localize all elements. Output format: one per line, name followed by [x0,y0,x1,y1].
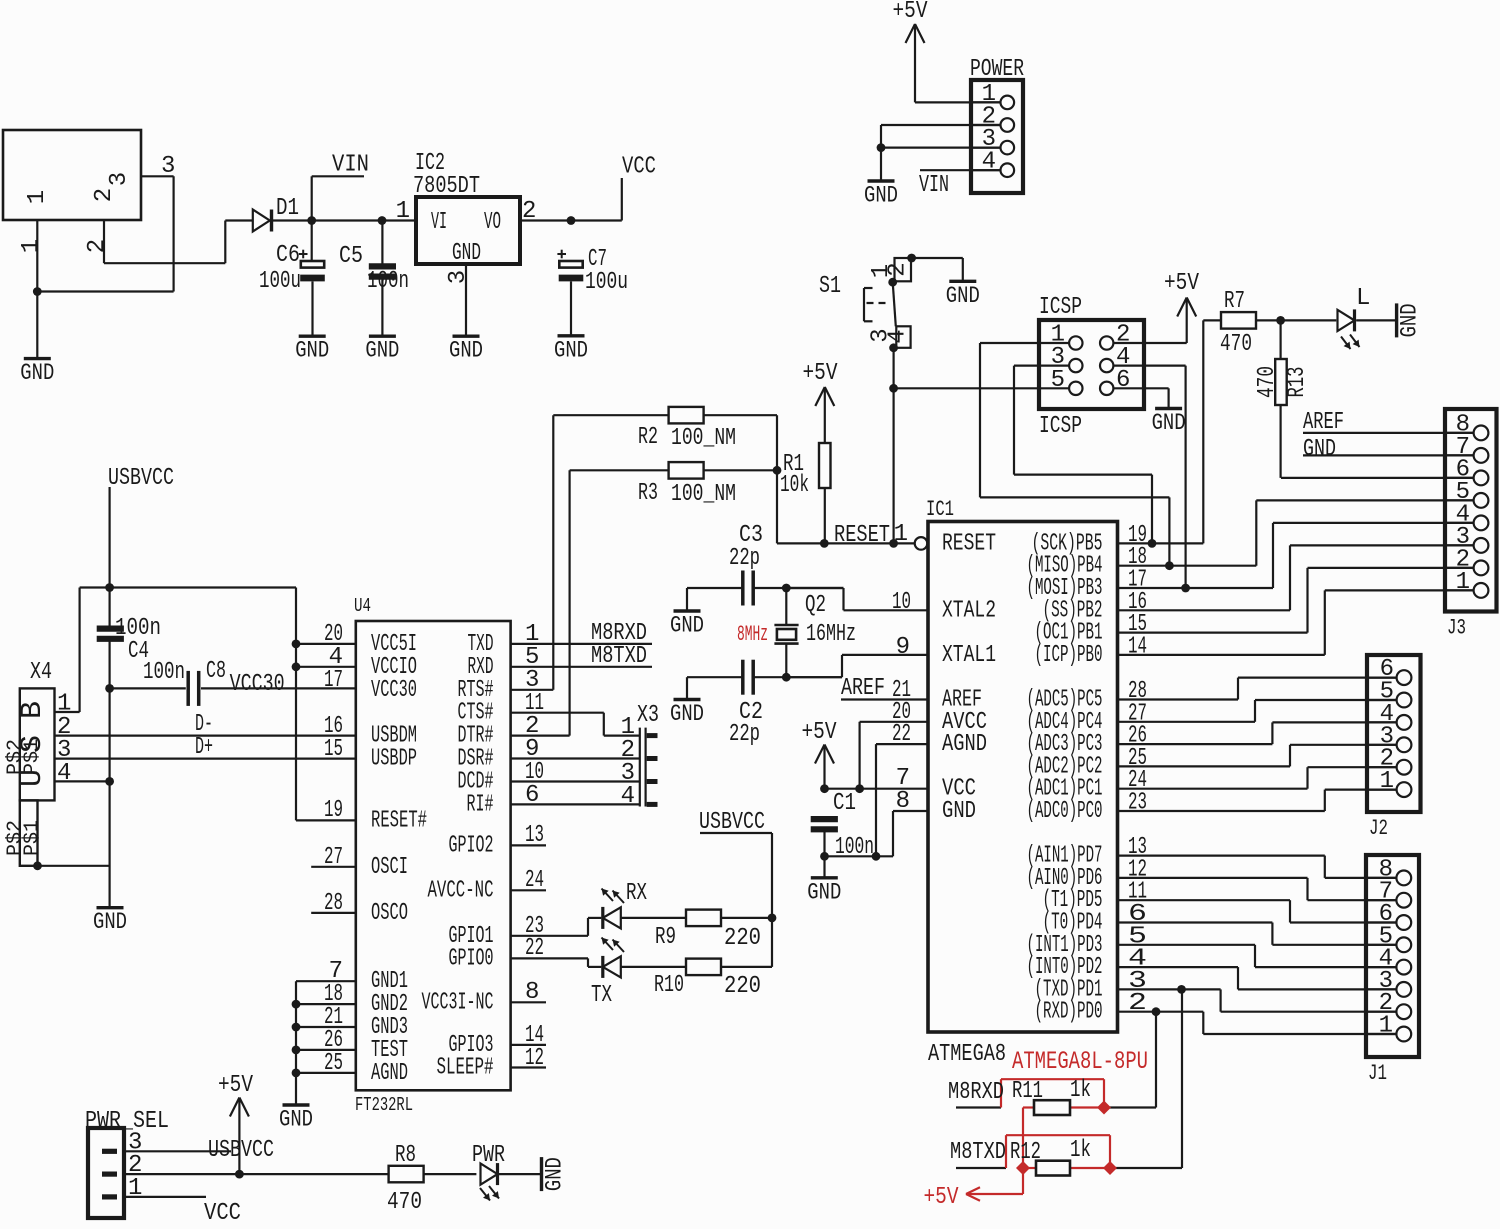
svg-text:GND: GND [93,909,127,935]
svg-text:(RXD)PD0: (RXD)PD0 [1035,999,1103,1026]
svg-text:100u: 100u [259,268,301,295]
svg-text:ATMEGA8L-8PU: ATMEGA8L-8PU [1012,1047,1148,1076]
svg-text:GND: GND [1303,436,1336,463]
svg-text:3: 3 [161,153,175,180]
svg-text:470: 470 [1220,331,1252,358]
svg-text:13: 13 [525,822,544,849]
svg-text:GND: GND [942,798,976,825]
svg-text:28: 28 [324,890,343,917]
svg-text:USBVCC: USBVCC [699,809,765,836]
svg-text:25: 25 [324,1050,343,1077]
svg-text:2: 2 [885,262,912,276]
svg-text:VCC30: VCC30 [371,677,417,704]
svg-text:23: 23 [1128,790,1147,817]
svg-text:M8TXD: M8TXD [591,643,647,670]
svg-text:VI: VI [431,209,447,236]
svg-text:R3: R3 [638,480,658,507]
svg-text:XTAL2: XTAL2 [942,597,996,624]
svg-text:8: 8 [525,979,539,1006]
svg-text:2: 2 [522,198,536,225]
svg-text:+5V: +5V [803,360,838,387]
svg-text:GND: GND [542,1157,568,1191]
svg-text:4: 4 [57,760,71,787]
svg-text:GND: GND [554,337,588,363]
svg-text:6: 6 [1116,367,1130,394]
svg-text:VIN: VIN [919,172,949,199]
svg-text:GPIO2: GPIO2 [449,832,494,859]
svg-text:GND: GND [20,360,54,386]
svg-text:9: 9 [896,634,910,661]
svg-text:4: 4 [885,329,912,343]
svg-text:27: 27 [324,844,343,871]
svg-text:RESET: RESET [834,522,890,549]
svg-text:VCC: VCC [204,1200,241,1224]
svg-text:1: 1 [396,198,410,225]
svg-text:RX: RX [626,880,647,907]
svg-text:1: 1 [128,1175,142,1202]
svg-text:1: 1 [24,190,51,204]
svg-text:R10: R10 [654,972,684,999]
svg-text:3: 3 [106,172,133,186]
svg-text:R2: R2 [638,424,658,451]
svg-text:USBVCC: USBVCC [108,465,174,492]
svg-text:OSCI: OSCI [371,854,408,881]
svg-text:ICSP: ICSP [1039,413,1082,440]
svg-text:C1: C1 [833,790,856,817]
svg-text:1: 1 [1379,1013,1393,1040]
svg-text:100n: 100n [835,834,874,861]
svg-text:RESET#: RESET# [371,807,427,834]
svg-text:+5V: +5V [893,0,928,25]
svg-text:AGND: AGND [371,1060,408,1087]
svg-text:VCC: VCC [622,154,656,181]
svg-text:100n: 100n [367,268,409,295]
svg-text:R7: R7 [1224,288,1245,315]
svg-text:XTAL1: XTAL1 [942,642,996,669]
svg-text:1: 1 [18,239,45,253]
svg-text:+5V: +5V [802,719,837,746]
svg-text:GND: GND [807,879,841,905]
svg-text:24: 24 [525,867,544,894]
svg-text:100u: 100u [585,269,628,296]
svg-text:GND: GND [946,283,980,309]
svg-text:3: 3 [445,270,472,284]
svg-text:SLEEP#: SLEEP# [437,1055,494,1082]
svg-text:S1: S1 [819,273,841,300]
svg-text:220: 220 [724,973,761,1000]
svg-text:100_NM: 100_NM [671,481,736,508]
svg-text:ATMEGA8: ATMEGA8 [928,1041,1006,1068]
svg-text:+5V: +5V [218,1072,253,1099]
svg-text:X3: X3 [637,702,659,729]
svg-text:RI#: RI# [467,791,494,818]
svg-text:M8TXD: M8TXD [950,1139,1006,1166]
svg-text:R12: R12 [1010,1139,1041,1166]
svg-text:16MHz: 16MHz [806,621,856,648]
svg-text:22p: 22p [729,545,760,572]
svg-text:22: 22 [892,721,911,748]
svg-text:470: 470 [1254,366,1281,398]
svg-text:D+: D+ [195,734,213,761]
svg-text:10: 10 [892,589,911,616]
svg-text:GND: GND [365,338,399,364]
svg-text:470: 470 [387,1189,422,1216]
svg-text:C5: C5 [339,243,363,270]
svg-text:X4: X4 [30,659,52,686]
svg-text:22p: 22p [729,721,760,748]
svg-text:17: 17 [324,667,343,694]
svg-text:(ICP)PB0: (ICP)PB0 [1035,642,1103,669]
svg-text:J3: J3 [1447,616,1466,641]
svg-text:GND: GND [449,338,483,364]
svg-text:GND: GND [452,240,481,267]
svg-text:8: 8 [896,788,910,815]
svg-text:GND: GND [1152,410,1186,436]
svg-text:15: 15 [324,736,343,763]
svg-text:J1: J1 [1368,1061,1387,1086]
svg-text:+5V: +5V [1164,270,1199,297]
svg-text:TX: TX [591,982,612,1009]
svg-text:D1: D1 [276,195,299,222]
svg-text:AREF: AREF [841,675,885,702]
svg-text:5: 5 [1051,367,1065,394]
svg-text:VO: VO [484,209,501,236]
svg-text:10k: 10k [780,472,809,499]
svg-text:1k: 1k [1070,1137,1091,1164]
svg-text:POWER: POWER [970,56,1024,83]
svg-text:OSCO: OSCO [371,900,408,927]
svg-text:GND: GND [279,1107,313,1133]
svg-text:+5V: +5V [924,1184,959,1211]
svg-text:AVCC-NC: AVCC-NC [428,877,494,904]
svg-text:GND: GND [1397,303,1423,337]
svg-text:220: 220 [724,925,761,952]
svg-text:2: 2 [91,188,118,202]
svg-text:R9: R9 [655,924,676,951]
svg-text:U4: U4 [354,595,371,617]
svg-text:GND: GND [864,183,898,209]
svg-text:1: 1 [1380,768,1394,795]
svg-text:C8: C8 [206,658,226,685]
svg-text:J2: J2 [1369,816,1388,841]
svg-text:12: 12 [525,1045,544,1072]
svg-text:L: L [1356,285,1370,312]
svg-text:R13: R13 [1284,367,1311,398]
svg-text:C6: C6 [276,242,300,269]
svg-text:6: 6 [525,782,539,809]
svg-text:AGND: AGND [942,731,987,758]
svg-text:ICSP: ICSP [1039,294,1082,321]
svg-text:100n: 100n [143,659,185,686]
svg-text:14: 14 [1128,633,1147,660]
svg-text:VCC3I-NC: VCC3I-NC [422,989,494,1016]
svg-text:4: 4 [621,783,635,810]
svg-text:GND: GND [670,613,704,639]
svg-text:VCC30: VCC30 [230,671,285,698]
svg-text:2: 2 [1128,990,1147,1017]
svg-text:USBDP: USBDP [371,746,417,773]
svg-text:P$1: P$1 [21,739,44,775]
svg-text:R11: R11 [1012,1078,1043,1105]
svg-text:19: 19 [324,797,343,824]
svg-text:1k: 1k [1070,1077,1091,1104]
svg-text:100_NM: 100_NM [671,425,736,452]
svg-text:USBVCC: USBVCC [208,1137,274,1164]
svg-text:1: 1 [894,521,908,548]
svg-text:GPIO0: GPIO0 [449,945,494,972]
svg-text:GND: GND [295,338,329,364]
svg-text:2: 2 [84,239,111,253]
svg-text:PWR: PWR [472,1142,505,1169]
svg-text:1: 1 [1456,569,1470,596]
svg-text:8MHz: 8MHz [737,622,768,647]
svg-text:RESET: RESET [942,530,996,557]
svg-text:R8: R8 [395,1142,416,1169]
svg-text:GND: GND [670,701,704,727]
svg-text:(ADC0)PC0: (ADC0)PC0 [1027,798,1103,825]
svg-text:4: 4 [982,149,996,176]
svg-text:IC1: IC1 [926,497,954,522]
svg-text:M8RXD: M8RXD [948,1079,1004,1106]
svg-text:22: 22 [525,935,544,962]
svg-text:7805DT: 7805DT [413,173,480,200]
svg-text:VIN: VIN [332,152,369,179]
svg-text:Q2: Q2 [805,592,826,619]
svg-text:P$1: P$1 [21,820,44,856]
svg-text:FT232RL: FT232RL [355,1094,413,1116]
svg-text:AREF: AREF [1303,409,1344,436]
svg-text:PWR_SEL: PWR_SEL [85,1108,169,1135]
